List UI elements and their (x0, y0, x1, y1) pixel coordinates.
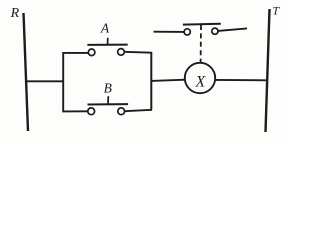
contact B right terminal (118, 108, 125, 115)
wire: left rail to parallel branch point (25, 80, 64, 82)
contact X right terminal (212, 28, 218, 34)
wire: left branch vertical + top wire to contact A (63, 53, 88, 112)
contact A actuator stem (107, 38, 109, 46)
svg-text:X: X (195, 74, 207, 91)
coil X (185, 63, 215, 93)
wire: contact A to right branch vertical (124, 51, 152, 54)
contact X left terminal (184, 29, 190, 35)
contact A actuator bar (87, 44, 127, 46)
mechanical link: dashed line from contact X bar to coil X (200, 25, 202, 63)
contact B left terminal (88, 108, 95, 115)
contact A right terminal (118, 49, 125, 56)
contact X actuator bar (183, 23, 221, 26)
right rail T (266, 9, 270, 132)
svg-text:B: B (104, 80, 112, 95)
contact X right wire (218, 28, 247, 31)
contact A left terminal (88, 49, 95, 56)
wire: bottom branch left segment (62, 110, 88, 112)
wire: contact B to right branch vertical (125, 110, 152, 111)
contact X left wire (154, 31, 185, 33)
wire: coil X to right rail (215, 79, 267, 81)
wire: right branch vertical (150, 52, 152, 110)
svg-text:R: R (10, 6, 20, 21)
wire: branch point to coil X (151, 80, 185, 81)
contact B actuator bar (88, 103, 129, 105)
svg-text:A: A (100, 21, 110, 36)
contact B actuator stem (107, 96, 109, 104)
left rail R (24, 13, 29, 131)
